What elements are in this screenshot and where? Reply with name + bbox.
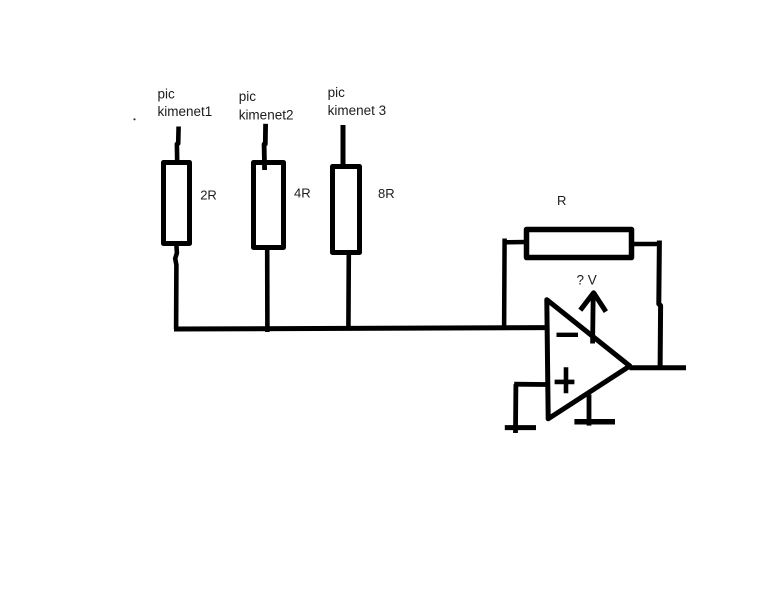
wire: R2 bottom to bus [265, 248, 270, 332]
svg-text:kimenet 3: kimenet 3 [328, 103, 387, 118]
wire: R1 bottom to bus [175, 245, 177, 329]
wire: non-inverting horizontal [514, 382, 546, 387]
svg-text:pic: pic [239, 89, 257, 104]
svg-text:kimenet2: kimenet2 [239, 108, 294, 123]
wire: input 2 to R2 top [264, 124, 266, 170]
wire: feedback left horizontal [504, 240, 528, 245]
resistor R1 (2R) [164, 163, 190, 244]
minus sign (inverting input) [557, 333, 579, 337]
wire: ground G2 vertical [587, 395, 592, 426]
stray dot [133, 118, 135, 120]
wire: input 1 to R1 top [177, 127, 179, 165]
wire: input 3 to R3 top [341, 125, 346, 167]
wire: R3 bottom to bus [346, 253, 351, 329]
wire: non-inverting vertical [513, 384, 518, 433]
ground G1 bar [505, 425, 536, 430]
resistor Rf (R) [527, 230, 632, 258]
svg-text:pic: pic [158, 86, 176, 101]
svg-text:R: R [557, 193, 566, 208]
wire: summing bus to inverting input [174, 328, 546, 329]
node label: pic kimenet 3 [328, 85, 387, 118]
svg-text:8R: 8R [378, 186, 395, 201]
node label: pic kimenet2 [239, 89, 294, 123]
svg-text:pic: pic [328, 85, 346, 100]
svg-text:2R: 2R [200, 188, 217, 203]
plus sign (non-inverting input) [555, 367, 575, 393]
wire: feedback right vertical to output [659, 241, 661, 369]
resistor R2 (4R) [254, 163, 284, 248]
ground G2 bar [574, 419, 615, 425]
node label: pic kimenet1 [158, 86, 213, 119]
output voltage arrow [590, 294, 595, 344]
svg-text:4R: 4R [294, 186, 311, 201]
svg-text:? V: ? V [577, 272, 597, 287]
wire: feedback left vertical [502, 239, 507, 330]
wire: output [630, 365, 687, 370]
op-amp U1 [547, 300, 630, 419]
wire: feedback right horizontal [632, 242, 661, 247]
svg-text:kimenet1: kimenet1 [158, 104, 213, 119]
resistor R3 (8R) [333, 167, 360, 253]
